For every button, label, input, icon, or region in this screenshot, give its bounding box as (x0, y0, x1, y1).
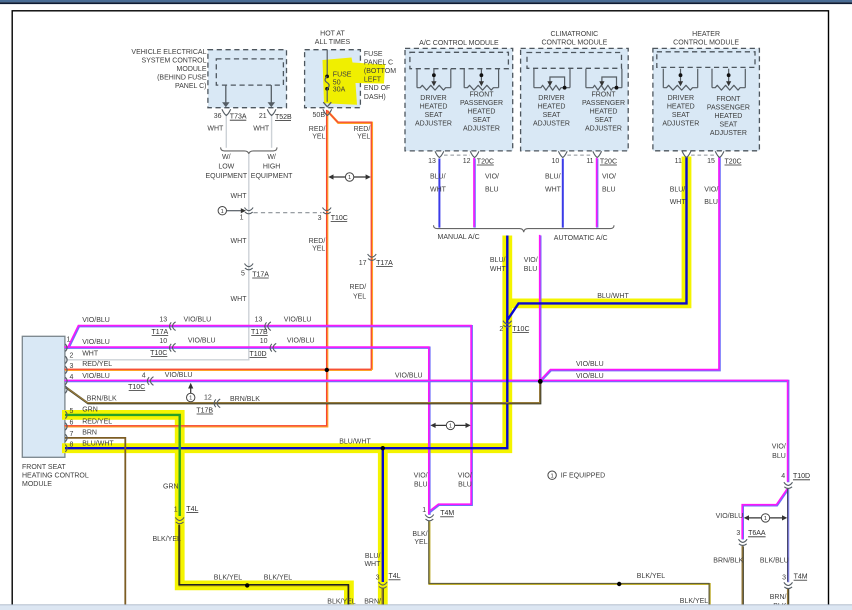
svg-text:WHT: WHT (490, 266, 507, 273)
svg-text:T4M: T4M (794, 574, 808, 581)
svg-text:RED/: RED/ (309, 238, 326, 245)
svg-text:IF EQUIPPED: IF EQUIPPED (561, 473, 605, 480)
brace: manual/automatic A/C wire merge (434, 225, 615, 232)
svg-text:WHT: WHT (670, 199, 687, 206)
dashed link between connector 1 and T10C pin 3 (254, 212, 322, 214)
svg-text:ADJUSTER: ADJUSTER (710, 130, 747, 137)
svg-text:7: 7 (69, 431, 73, 438)
svg-text:1: 1 (174, 506, 178, 513)
svg-text:HEATED: HEATED (468, 108, 496, 115)
svg-text:MODULE: MODULE (177, 66, 207, 73)
svg-text:BRN/BLK: BRN/BLK (87, 396, 117, 403)
svg-text:LOW: LOW (218, 163, 234, 170)
svg-text:BLU/WHT: BLU/WHT (597, 293, 629, 300)
note arrow: circled 1 into WHT connector (218, 207, 226, 215)
svg-text:BLU/WHT: BLU/WHT (82, 441, 114, 448)
module box: A/C CONTROL MODULE (405, 48, 513, 150)
svg-text:T20C: T20C (725, 158, 742, 165)
svg-text:FRONT: FRONT (469, 91, 494, 98)
rheostat: Climatronic driver heated seat adjuster (533, 69, 535, 88)
connector 1 T4M (425, 515, 434, 518)
connector 13 T17B (on VIO/BLU upper) (268, 322, 271, 331)
connector 2 T10C (on BLU/WHT riser) (503, 321, 512, 324)
highlight: yellow marker over fuse (323, 58, 386, 105)
svg-text:GRN: GRN (82, 407, 98, 414)
svg-text:21: 21 (259, 113, 267, 120)
svg-text:EQUIPMENT: EQUIPMENT (251, 173, 293, 180)
svg-text:EQUIPMENT: EQUIPMENT (205, 173, 247, 180)
svg-text:T10C: T10C (512, 326, 529, 333)
connector 10 T10D (on VIO/BLU pin 1) (273, 343, 276, 352)
svg-text:SEAT: SEAT (595, 117, 613, 124)
svg-text:CONTROL MODULE: CONTROL MODULE (541, 39, 607, 46)
svg-text:VIO/BLU: VIO/BLU (188, 337, 216, 344)
svg-text:RED/: RED/ (354, 126, 371, 133)
note arrow: circled 1 up into VIO/BLU pin 4 wire (190, 388, 192, 394)
svg-text:YEL: YEL (312, 133, 325, 140)
svg-text:FRONT SEAT: FRONT SEAT (22, 464, 66, 471)
wire RED/YEL fuse left riser to pin 6 (65, 111, 327, 427)
wire BLU/WHT riser brace to pin 8 run (highlighted) (65, 236, 507, 449)
svg-text:HEATED: HEATED (590, 108, 618, 115)
module box: FUSE PANEL C (fuse holder) (305, 50, 361, 108)
note: circled 1 IF EQUIPPED (548, 471, 556, 479)
svg-text:BLU/: BLU/ (430, 174, 446, 181)
svg-text:RED/YEL: RED/YEL (82, 361, 112, 368)
svg-text:BLU/: BLU/ (490, 257, 506, 264)
svg-text:YEL: YEL (414, 539, 427, 546)
connector 10 T10C (on VIO/BLU pin 1) (172, 343, 175, 352)
svg-text:BLU/: BLU/ (670, 187, 686, 194)
svg-text:PANEL C): PANEL C) (175, 83, 207, 90)
svg-text:(BEHIND FUSE: (BEHIND FUSE (157, 75, 207, 82)
svg-text:1: 1 (66, 337, 70, 344)
svg-text:FUSE: FUSE (333, 72, 352, 79)
connector 3 T10C (on RED/YEL riser) (323, 208, 332, 211)
svg-text:BLU: BLU (602, 187, 616, 194)
svg-text:DRIVER: DRIVER (538, 95, 564, 102)
VESCM internal output arrow pin 21 (270, 85, 272, 103)
svg-text:WHT: WHT (231, 238, 248, 245)
wire BRN pin 7 (65, 438, 125, 606)
svg-text:VIO/: VIO/ (704, 187, 718, 194)
svg-text:BLU: BLU (772, 453, 786, 460)
connector 1 T4L (175, 517, 184, 520)
bottom status bar (0, 605, 852, 610)
svg-text:YEL: YEL (312, 246, 325, 253)
pin 11 connector at Climatronic module and T20C (593, 151, 602, 157)
svg-text:T20C: T20C (477, 158, 494, 165)
pin 12 connector at A/C module and T20C (470, 151, 479, 157)
svg-text:BLU: BLU (458, 482, 472, 489)
svg-text:BLU/: BLU/ (545, 174, 561, 181)
svg-text:HEATING CONTROL: HEATING CONTROL (22, 473, 89, 480)
svg-text:WHT: WHT (253, 125, 270, 132)
pin 11 connector at heater module (682, 151, 691, 157)
svg-text:VIO/: VIO/ (485, 174, 499, 181)
connector 3 T6AA (739, 539, 748, 542)
wire VIO/BLU pin 1 run (via T10C/T10D to T4M pin 1) (65, 348, 429, 515)
svg-text:10: 10 (260, 338, 268, 345)
module pin 5 arc (65, 411, 67, 418)
svg-text:SEAT: SEAT (720, 121, 738, 128)
svg-text:10: 10 (159, 338, 167, 345)
svg-text:VIO/BLU: VIO/BLU (184, 316, 212, 323)
svg-text:BLU/: BLU/ (365, 553, 381, 560)
module pin 3 arc (65, 366, 67, 373)
wire BLU/WHT drop to T4L pin 3 (highlighted) (382, 448, 384, 582)
VESCM internal output arrow pin 36 (225, 85, 227, 103)
module box: VEHICLE ELECTRICAL SYSTEM CONTROL MODULE (208, 50, 287, 108)
wire BLK/YEL below T4L pin 1 (highlighted) (180, 525, 349, 605)
module pin 8 arc (65, 445, 67, 452)
svg-text:VIO/BLU: VIO/BLU (82, 317, 110, 324)
svg-text:HEATED: HEATED (714, 113, 742, 120)
svg-text:WHT: WHT (364, 561, 381, 568)
svg-text:DASH): DASH) (364, 94, 386, 101)
svg-text:8: 8 (69, 441, 73, 448)
module pin 6 arc (65, 423, 67, 430)
module box: CLIMATRONIC CONTROL MODULE (521, 48, 629, 150)
highlight band: GRN wire pin 5 and BLK/YEL continuation (62, 415, 349, 605)
wire BRN/BLK below T4L pin 3 (382, 588, 384, 605)
svg-text:SYSTEM CONTROL: SYSTEM CONTROL (142, 58, 207, 65)
svg-text:W/: W/ (222, 154, 231, 161)
svg-text:PASSENGER: PASSENGER (460, 100, 503, 107)
connector 4 T10D (784, 482, 793, 485)
svg-text:11: 11 (675, 158, 682, 165)
module pin 4 arc (65, 377, 67, 384)
note arrow: circled 1 between VIO/BLU pair at T4M (432, 424, 470, 426)
pin 21 connector at VESCM (267, 109, 276, 115)
svg-text:(BOTTOM: (BOTTOM (364, 68, 396, 75)
svg-text:ADJUSTER: ADJUSTER (463, 125, 500, 132)
svg-text:MANUAL A/C: MANUAL A/C (438, 234, 480, 241)
svg-text:VIO/: VIO/ (602, 174, 616, 181)
svg-text:BRN/BLK: BRN/BLK (230, 396, 260, 403)
svg-text:WHT: WHT (207, 125, 224, 132)
svg-text:RED/: RED/ (349, 284, 366, 291)
wire VIO/BLU heater pin 15 drop (541, 158, 720, 381)
junction: BLK/YEL run (right) (617, 582, 621, 586)
svg-text:SEAT: SEAT (425, 112, 443, 119)
svg-text:BLU/WHT: BLU/WHT (339, 439, 371, 446)
pin 10 connector at Climatronic module (558, 151, 567, 157)
svg-text:30A: 30A (333, 86, 346, 93)
svg-text:T4L: T4L (186, 506, 198, 513)
junction: BLK/YEL run (left) (245, 583, 249, 587)
wire RED/YEL pin 3 run (65, 369, 372, 371)
note arrow: circled 1 between RED/YEL risers (331, 176, 369, 178)
svg-text:VIO/BLU: VIO/BLU (165, 372, 193, 379)
wire WHT merged run to module pin 2 (65, 154, 249, 360)
module pin 7 arc (65, 434, 67, 441)
connector 3 T4L (379, 582, 388, 585)
svg-text:15: 15 (707, 158, 715, 165)
wire VIO/BLU Climatronic pin 11 drop (596, 159, 598, 228)
wire BRN/BLK pin run to junction with VIO/BLU (66, 381, 540, 403)
svg-text:FRONT: FRONT (716, 96, 741, 103)
svg-text:BRN/: BRN/ (770, 594, 787, 601)
svg-text:PASSENGER: PASSENGER (582, 100, 625, 107)
svg-text:YEL: YEL (357, 133, 370, 140)
svg-text:A/C CONTROL MODULE: A/C CONTROL MODULE (419, 40, 499, 47)
highlight band: heater BLU/WHT branch (507, 157, 686, 304)
svg-text:T10D: T10D (249, 351, 266, 358)
potentiometer: heater front passenger heated seat adjuster (711, 69, 713, 88)
svg-text:T73A: T73A (230, 114, 247, 121)
svg-text:13: 13 (428, 158, 436, 165)
pin 15 connector at heater module and T20C (715, 151, 724, 157)
svg-text:BRN: BRN (82, 430, 97, 437)
svg-text:13: 13 (159, 316, 167, 323)
connector 13 T17A (on VIO/BLU upper) (172, 322, 175, 331)
brace: W/ LOW / W/ HIGH EQUIPMENT merge (221, 147, 277, 154)
module box: HEATER CONTROL MODULE (653, 48, 760, 150)
svg-text:T52B: T52B (275, 114, 292, 121)
svg-text:12: 12 (204, 394, 212, 401)
svg-text:VIO/BLU: VIO/BLU (395, 373, 423, 380)
svg-text:1: 1 (221, 209, 224, 215)
svg-text:DRIVER: DRIVER (668, 95, 694, 102)
svg-text:WHT: WHT (231, 193, 248, 200)
svg-text:AUTOMATIC A/C: AUTOMATIC A/C (554, 235, 608, 242)
svg-text:WHT: WHT (430, 187, 447, 194)
svg-text:T10C: T10C (128, 384, 145, 391)
svg-text:1: 1 (449, 424, 452, 430)
connector 4 T10C (on VIO/BLU pin 4) (150, 377, 153, 386)
svg-text:HEATED: HEATED (420, 104, 448, 111)
svg-text:VIO/BLU: VIO/BLU (576, 361, 604, 368)
svg-text:T20C: T20C (600, 158, 617, 165)
svg-text:12: 12 (463, 158, 471, 165)
svg-text:SEAT: SEAT (543, 112, 561, 119)
svg-text:ADJUSTER: ADJUSTER (585, 125, 622, 132)
svg-text:FRONT: FRONT (591, 91, 616, 98)
svg-text:ADJUSTER: ADJUSTER (662, 121, 699, 128)
svg-text:VIO/BLU: VIO/BLU (82, 339, 110, 346)
svg-text:11: 11 (586, 158, 593, 165)
svg-text:3: 3 (318, 215, 322, 222)
svg-text:BLK/YEL: BLK/YEL (637, 573, 666, 580)
svg-text:1: 1 (189, 396, 192, 402)
wire VIO/BLU upper run (pin 1 via T17A/T17B to T4M) (65, 326, 472, 515)
svg-text:T17A: T17A (376, 260, 393, 267)
svg-text:3: 3 (782, 575, 786, 582)
svg-text:BLK/YEL: BLK/YEL (264, 575, 293, 582)
svg-text:3: 3 (376, 574, 380, 581)
svg-text:SEAT: SEAT (672, 112, 690, 119)
connector 1 (inline on WHT) (245, 208, 254, 211)
svg-text:WHT: WHT (231, 296, 248, 303)
svg-text:MODULE: MODULE (22, 481, 52, 488)
wire BLU/WHT heater pin 11 drop (highlighted) (508, 157, 687, 320)
svg-text:VIO/: VIO/ (458, 473, 472, 480)
svg-text:3: 3 (736, 530, 740, 537)
svg-text:T10C: T10C (150, 350, 167, 357)
connector 12 T17B (on BRN/BLK) (217, 399, 220, 408)
svg-text:6: 6 (69, 420, 73, 427)
svg-text:36: 36 (214, 113, 222, 120)
svg-text:T17B: T17B (196, 407, 213, 414)
svg-text:PANEL C: PANEL C (364, 59, 393, 66)
wire WHT from pin 36 (225, 114, 227, 148)
svg-text:ALL TIMES: ALL TIMES (315, 39, 351, 46)
note arrow: circled 1 between T6AA and T10D wires (745, 517, 786, 519)
wire BRN/BLK below T6AA pin 3 (742, 546, 744, 605)
svg-text:4: 4 (142, 372, 146, 379)
svg-text:BLK/YEL: BLK/YEL (680, 598, 709, 605)
highlight band: BLU/WHT riser from brace to pin 8 run (62, 236, 507, 449)
svg-text:BLU: BLU (704, 199, 718, 206)
potentiometer: heater driver heated seat adjuster (662, 69, 664, 88)
junction: BLU/WHT pin 8 run and T4L drop (381, 446, 385, 450)
svg-text:VIO/: VIO/ (524, 257, 538, 264)
svg-text:VIO/: VIO/ (772, 444, 786, 451)
svg-text:T17A: T17A (151, 329, 168, 336)
pin 13 connector at A/C module (435, 151, 444, 157)
top application bar (0, 0, 852, 2)
svg-text:HOT AT: HOT AT (320, 31, 345, 38)
svg-text:VIO/: VIO/ (414, 473, 428, 480)
svg-text:5: 5 (241, 271, 245, 278)
wire BLK/YEL from T4M pin 1 (429, 521, 709, 605)
svg-text:RED/: RED/ (309, 126, 326, 133)
svg-text:BRN/BLK: BRN/BLK (713, 557, 743, 564)
svg-text:ADJUSTER: ADJUSTER (533, 121, 570, 128)
highlight band: BLU/WHT drop to T4L pin 3 (378, 448, 388, 605)
svg-text:DRIVER: DRIVER (420, 95, 446, 102)
svg-text:T4L: T4L (389, 573, 401, 580)
svg-text:ADJUSTER: ADJUSTER (415, 121, 452, 128)
wire BRN/BLK below T4M pin 3 (787, 589, 789, 606)
svg-text:HEATER: HEATER (692, 31, 720, 38)
pin 50B connector at fuse panel (323, 109, 332, 115)
connector 3 T4M (784, 582, 793, 585)
svg-text:2: 2 (499, 326, 503, 333)
wire WHT from pin 21 (271, 114, 273, 148)
wire GRN pin 5 (highlighted) (65, 415, 180, 516)
svg-text:LEFT: LEFT (364, 77, 382, 84)
svg-text:FUSE: FUSE (364, 51, 383, 58)
svg-text:HIGH: HIGH (263, 163, 281, 170)
svg-text:BLK/YEL: BLK/YEL (214, 575, 243, 582)
wire BLU/WHT A/C pin 13 drop (438, 159, 440, 228)
wire VIO/BLU from A/C brace (539, 236, 541, 382)
module pin 2 arc (65, 356, 67, 363)
svg-text:17: 17 (359, 260, 367, 267)
junction: RED/YEL riser and pin 3 wire (325, 368, 329, 372)
svg-text:VEHICLE ELECTRICAL: VEHICLE ELECTRICAL (131, 49, 206, 56)
svg-text:WHT: WHT (82, 350, 99, 357)
svg-text:VIO/BLU: VIO/BLU (287, 337, 315, 344)
svg-text:1: 1 (764, 516, 767, 522)
svg-text:10: 10 (552, 158, 560, 165)
svg-text:HEATED: HEATED (538, 104, 566, 111)
svg-text:T6AA: T6AA (748, 530, 766, 537)
svg-text:END OF: END OF (364, 85, 390, 92)
connector 17 T17A (on RED/YEL riser) (368, 254, 377, 257)
svg-text:BLU: BLU (524, 266, 538, 273)
module box: FRONT SEAT HEATING CONTROL MODULE (22, 336, 65, 457)
module pin 1 arc (65, 344, 67, 351)
svg-text:VIO/BLU: VIO/BLU (284, 316, 312, 323)
wire RED/YEL fuse right riser (327, 111, 372, 370)
svg-text:VIO/BLU: VIO/BLU (716, 513, 744, 520)
wire BLU/WHT Climatronic pin 10 drop (562, 159, 564, 228)
svg-text:4: 4 (69, 374, 73, 381)
svg-text:WHT: WHT (545, 187, 562, 194)
svg-text:BLK/BLU: BLK/BLU (760, 557, 789, 564)
svg-text:1: 1 (422, 507, 426, 514)
wire VIO/BLU pin 4 run to T10D (65, 381, 788, 482)
svg-text:W/: W/ (267, 154, 276, 161)
svg-text:1: 1 (550, 473, 553, 479)
svg-text:2: 2 (69, 352, 73, 359)
svg-text:13: 13 (255, 316, 263, 323)
rheostat: Climatronic front passenger heated seat adjuster (585, 69, 587, 88)
svg-text:YEL: YEL (353, 294, 366, 301)
svg-text:CONTROL MODULE: CONTROL MODULE (673, 39, 739, 46)
svg-text:BLU: BLU (485, 187, 499, 194)
svg-text:GRN: GRN (163, 484, 179, 491)
wire BLK/BLU below T10D (787, 489, 789, 582)
svg-text:1: 1 (240, 214, 244, 221)
svg-text:T4M: T4M (440, 510, 454, 517)
svg-text:T10D: T10D (793, 473, 810, 480)
svg-text:CLIMATRONIC: CLIMATRONIC (551, 31, 599, 38)
potentiometer: A/C front passenger heated seat adjuster (463, 69, 465, 88)
svg-text:HEATED: HEATED (667, 104, 695, 111)
junction: VIO/BLU pin 4 / brace wire / heater wire / BRN-BLK (538, 379, 543, 384)
svg-text:BLK/YEL: BLK/YEL (153, 536, 182, 543)
svg-text:PASSENGER: PASSENGER (707, 104, 750, 111)
svg-text:5: 5 (69, 408, 73, 415)
wire VIO/BLU below T10D to T6AA (743, 489, 788, 540)
svg-text:SEAT: SEAT (473, 117, 491, 124)
svg-text:RED/YEL: RED/YEL (82, 419, 112, 426)
svg-text:1: 1 (348, 175, 351, 181)
module pin BRN/BLK arc (65, 386, 67, 393)
svg-text:3: 3 (69, 363, 73, 370)
svg-text:T17B: T17B (251, 329, 268, 336)
svg-text:4: 4 (781, 473, 785, 480)
svg-text:50B: 50B (313, 112, 326, 119)
svg-text:VIO/BLU: VIO/BLU (576, 373, 604, 380)
fuse FUSE 50 30A (326, 50, 328, 75)
svg-text:T17A: T17A (252, 271, 269, 278)
pin 36 connector at VESCM (222, 109, 231, 115)
svg-text:BLU: BLU (414, 482, 428, 489)
wire VIO/BLU A/C pin 12 drop (473, 159, 475, 228)
connector 5 T17A (on WHT) (245, 264, 254, 267)
potentiometer: A/C driver heated seat adjuster (416, 69, 418, 88)
svg-text:BLK/: BLK/ (412, 531, 427, 538)
svg-text:T10C: T10C (331, 215, 348, 222)
svg-text:VIO/BLU: VIO/BLU (82, 373, 110, 380)
